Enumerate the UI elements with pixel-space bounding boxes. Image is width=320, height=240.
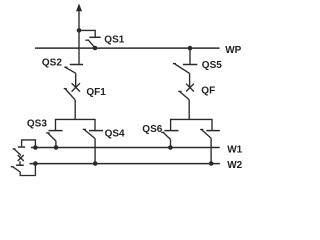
svg-text:QS6: QS6 (142, 124, 162, 135)
wire: QS1 tap horizontal then down (79, 30, 95, 37)
incoming line arrow (top feeder) (76, 4, 82, 12)
disconnector QS6 (161, 131, 178, 148)
wire: QS4 down to W2 (94, 139, 96, 164)
wire: left split header (56, 119, 96, 130)
node: unlabeled disconnector on W2 (209, 161, 214, 166)
node: QS4 on W2 (93, 161, 98, 166)
disconnector QS5 (173, 64, 197, 74)
svg-text:QS2: QS2 (42, 58, 62, 69)
wire: QF1 down to left split (74, 100, 76, 119)
svg-text:QS1: QS1 (104, 35, 124, 46)
wire: breaker to lower disconnector (19, 161, 21, 164)
node: junction dot feeder / QS1 tap (77, 28, 82, 33)
disconnector QS4 (83, 129, 103, 138)
wire: unlabeled disconnector down to W2 (210, 138, 212, 163)
svg-text:QS5: QS5 (202, 60, 222, 71)
svg-text:QF1: QF1 (86, 87, 106, 98)
node: QS3 on W1 (54, 145, 59, 150)
wire: WP down to QS5 (189, 48, 191, 64)
svg-text:QS3: QS3 (27, 119, 47, 130)
wire: right split header (171, 119, 212, 130)
svg-text:WP: WP (225, 45, 241, 56)
svg-text:QS4: QS4 (105, 129, 125, 140)
disconnector QS2 (64, 65, 83, 74)
disconnector QS3 (46, 131, 62, 148)
svg-text:W1: W1 (227, 144, 242, 155)
wire: QS2 to QF1 (75, 73, 77, 87)
disconnector (left tie, upper) (13, 147, 26, 155)
wire: QF down to right split (188, 100, 190, 120)
node: WP bus to right branch (188, 46, 193, 51)
wire: left feeder vertical (78, 11, 80, 64)
disconnector QS1 (bypass to WP bus) (85, 37, 100, 48)
wire: W1 up-and-left into left tie chain (22, 140, 36, 148)
wire: tie chain bottom return to W2 (20, 164, 35, 176)
circuit breaker (left tie, middle) (18, 155, 24, 161)
circuit breaker QF1 (64, 83, 80, 100)
node: tie chain on W1 (33, 145, 38, 150)
node: tie chain on W2 (33, 161, 38, 166)
wire: QS5 to QF (189, 73, 191, 87)
bus WP (35, 47, 220, 49)
disconnector (unlabeled, right pair) (200, 130, 220, 139)
svg-text:W2: W2 (227, 160, 242, 171)
disconnector (left tie, lower) (11, 165, 24, 172)
svg-text:QF: QF (201, 85, 215, 96)
bus W2 (30, 163, 220, 165)
circuit breaker QF (right) (178, 84, 194, 100)
node: QS1 blade on WP bus (93, 46, 98, 51)
bus W1 (31, 147, 220, 149)
node: QS6 on W1 (168, 145, 173, 150)
